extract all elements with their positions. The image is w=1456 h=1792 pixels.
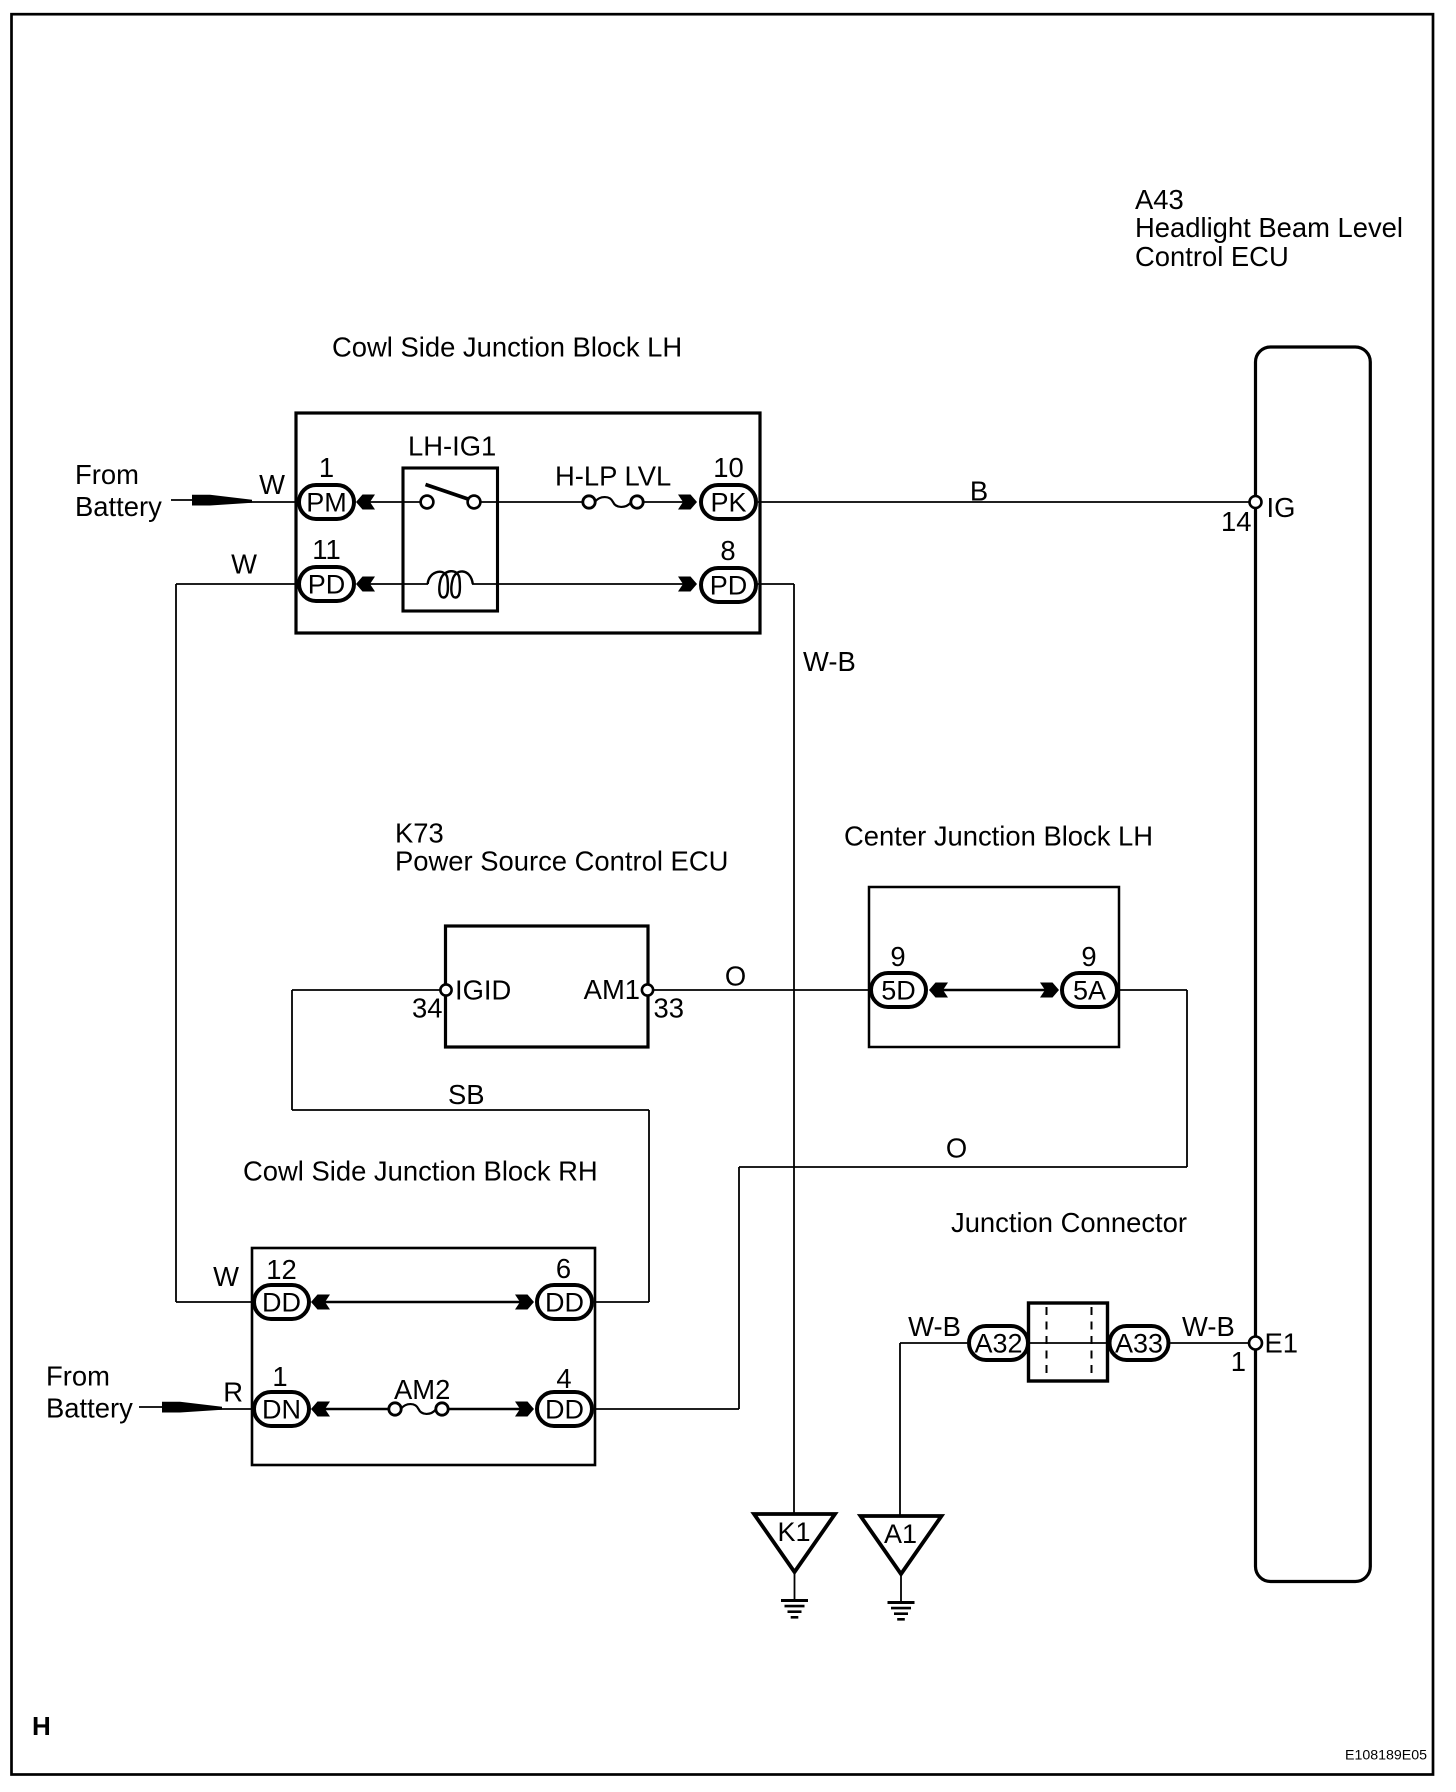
relay coil (428, 571, 473, 597)
svg-text:W: W (213, 1261, 239, 1292)
svg-text:Cowl Side Junction Block RH: Cowl Side Junction Block RH (243, 1156, 598, 1187)
svg-text:8: 8 (720, 535, 735, 566)
svg-text:E1: E1 (1265, 1328, 1299, 1359)
arrowhead into PD11 (356, 577, 375, 592)
svg-text:A33: A33 (1115, 1329, 1163, 1359)
wire W-B vertical to A1 (899, 1343, 901, 1516)
svg-text:W-B: W-B (908, 1311, 961, 1342)
svg-text:Battery: Battery (75, 491, 162, 522)
svg-text:5D: 5D (881, 976, 916, 1006)
connector PD pin 8 (701, 568, 756, 602)
ground triangle A1 (861, 1516, 942, 1574)
arrowhead into DD12 (311, 1295, 330, 1310)
svg-text:SB: SB (448, 1079, 485, 1110)
ground symbol (A1) (888, 1603, 915, 1620)
wire 5A right (1119, 989, 1187, 991)
relay switch blade (426, 485, 469, 500)
ground triangle K1 (754, 1514, 835, 1572)
connector 5A pin 9 (1062, 973, 1117, 1007)
wire DD12 to DD6 (325, 1301, 521, 1303)
wire DN to fuse AM2 (325, 1408, 388, 1410)
connector 5D pin 9 (871, 973, 926, 1007)
svg-text:4: 4 (556, 1363, 571, 1394)
svg-text:9: 9 (890, 941, 905, 972)
wire A1 to ground (900, 1574, 902, 1601)
svg-text:9: 9 (1081, 941, 1096, 972)
svg-text:R: R (223, 1377, 243, 1408)
connector DN pin 1 (254, 1392, 309, 1426)
wire 5A drop (1186, 990, 1188, 1167)
svg-text:DD: DD (545, 1288, 584, 1318)
svg-text:IG: IG (1267, 492, 1296, 523)
svg-text:1: 1 (1231, 1346, 1246, 1377)
svg-text:A43: A43 (1135, 184, 1184, 215)
connector PD pin 11 (299, 567, 354, 601)
svg-text:O: O (725, 961, 746, 992)
svg-text:33: 33 (654, 993, 684, 1024)
svg-text:K1: K1 (777, 1517, 810, 1547)
svg-text:PD: PD (308, 570, 346, 600)
svg-text:W: W (231, 549, 257, 580)
svg-text:14: 14 (1221, 506, 1251, 537)
wire SB horizontal (292, 1109, 649, 1111)
svg-text:Junction Connector: Junction Connector (951, 1207, 1187, 1238)
svg-text:12: 12 (266, 1254, 296, 1285)
wire O drop to DD4 row (738, 1167, 740, 1409)
fuse H-LP LVL symbol (583, 496, 643, 508)
wire SB to DD6 (595, 1301, 649, 1303)
terminal IGID pin 34 (440, 984, 451, 995)
svg-text:A1: A1 (884, 1519, 917, 1549)
svg-text:10: 10 (713, 452, 743, 483)
wire B from PK to IG terminal (758, 501, 1250, 503)
svg-text:A32: A32 (974, 1329, 1022, 1359)
wire coil to PD8 (498, 583, 685, 585)
terminal IG pin 14 (1250, 496, 1262, 508)
svg-text:1: 1 (319, 452, 334, 483)
svg-text:PK: PK (710, 488, 746, 518)
wire O from AM1 to 5D (653, 989, 869, 991)
arrowhead into 5A (1040, 983, 1059, 998)
wire K1 to ground (794, 1572, 796, 1599)
wire A33 to E1 (1171, 1342, 1250, 1344)
wire W to PD11 (176, 583, 297, 585)
arrowhead into DN (311, 1402, 330, 1417)
terminal AM1 pin 33 (642, 984, 653, 995)
wire SB drop to DD6 (648, 1110, 650, 1302)
wire O horizontal (739, 1166, 1187, 1168)
svg-text:W-B: W-B (803, 646, 856, 677)
relay LH-IG1 box (403, 468, 498, 611)
wire coil to box edge (472, 583, 498, 585)
ECU K73 box (446, 926, 649, 1047)
svg-text:1: 1 (272, 1361, 287, 1392)
svg-text:W: W (259, 469, 285, 500)
svg-text:DN: DN (262, 1395, 301, 1425)
connector A33 (1110, 1326, 1169, 1360)
svg-text:Center Junction Block LH: Center Junction Block LH (844, 821, 1153, 852)
connector DD pin 6 (537, 1285, 592, 1319)
svg-text:H: H (32, 1711, 51, 1741)
svg-text:K73: K73 (395, 818, 444, 849)
connector PM pin 1 (299, 485, 354, 519)
wire fuse to PK (644, 501, 685, 503)
svg-text:34: 34 (412, 993, 442, 1024)
svg-text:O: O (946, 1133, 967, 1164)
junction connector block (1029, 1303, 1108, 1381)
svg-text:LH-IG1: LH-IG1 (408, 430, 496, 461)
arrowhead into PK (678, 495, 697, 510)
connector A32 (969, 1326, 1028, 1360)
wire From Battery to DN with feed arrow (139, 1402, 252, 1413)
center junction block box (869, 887, 1119, 1047)
svg-text:From: From (75, 459, 139, 490)
arrowhead into DD6 (515, 1295, 534, 1310)
wire W to DD12 (176, 1301, 252, 1303)
svg-text:E108189E05: E108189E05 (1345, 1748, 1427, 1764)
wire W vertical PD11 to DD12 (175, 584, 177, 1302)
svg-text:IGID: IGID (455, 975, 511, 1006)
connector PK pin 10 (701, 485, 756, 519)
terminal E1 pin 1 (1249, 1337, 1262, 1350)
svg-text:PM: PM (306, 488, 347, 518)
svg-text:Headlight Beam Level: Headlight Beam Level (1135, 212, 1403, 243)
wire From Battery to PM with feed arrow (171, 495, 297, 506)
connector DD pin 4 (537, 1392, 592, 1426)
svg-text:5A: 5A (1073, 976, 1106, 1006)
svg-text:AM1: AM1 (584, 974, 640, 1005)
svg-text:AM2: AM2 (394, 1374, 450, 1405)
relay switch contacts (421, 496, 481, 509)
svg-text:Battery: Battery (46, 1393, 133, 1424)
wire fuse AM2 to DD4 (449, 1408, 521, 1410)
svg-text:Power Source Control ECU: Power Source Control ECU (395, 846, 728, 877)
fuse AM2 symbol (389, 1403, 448, 1415)
arrowhead into PM (356, 495, 375, 510)
wire 5D to 5A (943, 989, 1046, 991)
svg-text:11: 11 (312, 534, 340, 565)
wire W-B to A32 (900, 1342, 967, 1344)
svg-text:PD: PD (710, 571, 748, 601)
svg-text:W-B: W-B (1182, 1311, 1235, 1342)
arrowhead into 5D (929, 983, 948, 998)
arrowhead into DD4 (515, 1402, 534, 1417)
ground symbol (K1) (781, 1601, 808, 1618)
svg-text:Control ECU: Control ECU (1135, 241, 1289, 272)
wire IGID to SB route (292, 989, 440, 991)
wire PM to relay switch (369, 501, 421, 503)
svg-text:Cowl Side Junction Block LH: Cowl Side Junction Block LH (332, 332, 682, 363)
wire SB vertical (291, 990, 293, 1110)
connector DD pin 12 (254, 1285, 309, 1319)
svg-text:From: From (46, 1361, 110, 1392)
ECU A43 body (1256, 347, 1371, 1582)
svg-text:6: 6 (556, 1253, 571, 1284)
junction block RH box (252, 1248, 595, 1465)
svg-text:DD: DD (545, 1395, 584, 1425)
wire switch to fuse H-LP LVL (481, 501, 584, 503)
svg-text:DD: DD (262, 1288, 301, 1318)
arrowhead into PD8 (678, 577, 697, 592)
wire W-B vertical to K1 (793, 584, 795, 1514)
svg-text:H-LP LVL: H-LP LVL (555, 461, 671, 492)
wire DD4 to O route (595, 1408, 739, 1410)
junction block LH box (296, 413, 760, 633)
wire PD8 to W-B drop (757, 583, 794, 585)
wire PD11 to relay coil (369, 583, 428, 585)
